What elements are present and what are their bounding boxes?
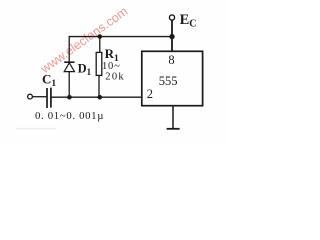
svg-text:20k: 20k [105, 72, 125, 83]
terminal Ec circle [169, 15, 174, 20]
wire left vertical [68, 36, 70, 97]
wire top horizontal [69, 36, 172, 38]
ground lead [172, 106, 174, 129]
svg-text:8: 8 [168, 53, 174, 67]
resistor R1 [96, 52, 102, 75]
wire input to capacitor [33, 96, 47, 98]
ground [167, 128, 180, 130]
terminal input circle [28, 94, 33, 99]
junction dot left [67, 95, 72, 100]
wire resistor top lead [99, 37, 101, 53]
capacitor C1 [47, 88, 51, 108]
junction dot resistor bottom [98, 95, 103, 100]
wire resistor bottom lead [98, 75, 100, 97]
IC 555 box [142, 51, 203, 105]
scan smudge bottom left [16, 128, 56, 130]
svg-text:2: 2 [147, 87, 153, 101]
junction dot resistor top [98, 34, 103, 39]
svg-text:555: 555 [159, 74, 178, 88]
svg-text:10~: 10~ [102, 61, 121, 72]
svg-text:0. 01~0. 001µ: 0. 01~0. 001µ [35, 110, 104, 122]
diode D1 [64, 62, 74, 71]
wire capacitor to pin2 [52, 96, 143, 98]
wire Ec vertical [171, 20, 173, 51]
junction dot Ec [169, 34, 174, 39]
